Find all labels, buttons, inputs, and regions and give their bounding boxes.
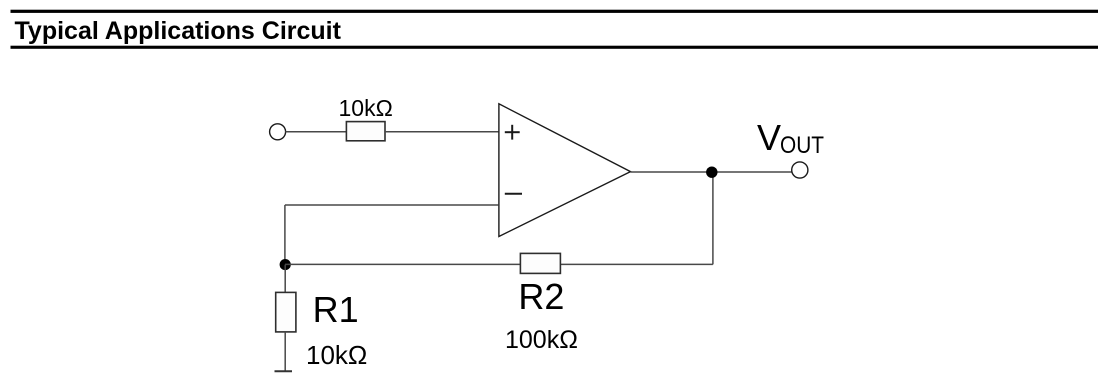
input terminal bbox=[270, 124, 286, 140]
node: output junction bbox=[706, 167, 717, 178]
svg-text:100kΩ: 100kΩ bbox=[505, 326, 578, 354]
wire: op-amp - input feedback branch (horizontal) bbox=[285, 204, 499, 206]
output terminal bbox=[792, 162, 808, 178]
op-amp - input marker bbox=[505, 193, 522, 195]
node: feedback junction bbox=[280, 259, 291, 270]
svg-text:R2: R2 bbox=[518, 276, 564, 317]
resistor 10k (input) bbox=[346, 122, 385, 141]
svg-text:10kΩ: 10kΩ bbox=[339, 95, 393, 121]
svg-text:10kΩ: 10kΩ bbox=[306, 340, 367, 370]
wire: input resistor to op-amp + input bbox=[385, 131, 498, 133]
op-amp + input marker bbox=[505, 125, 520, 140]
bottom rule bbox=[11, 46, 1099, 49]
svg-text:OUT: OUT bbox=[780, 132, 824, 159]
wire: junction to R1 bbox=[284, 265, 286, 293]
svg-text:V: V bbox=[757, 117, 781, 158]
wire: R1 to ground bbox=[284, 332, 286, 371]
resistor R2 body bbox=[520, 253, 560, 273]
svg-text:Typical Applications Circuit: Typical Applications Circuit bbox=[15, 17, 342, 45]
wire: op-amp output bbox=[631, 171, 792, 173]
ground bbox=[275, 370, 293, 372]
svg-text:R1: R1 bbox=[313, 289, 359, 330]
resistor R1 body bbox=[276, 292, 296, 332]
wire: input terminal to input resistor bbox=[285, 131, 346, 133]
top rule bbox=[11, 10, 1099, 13]
wire: bottom feedback horizontal bbox=[285, 263, 713, 265]
op-amp U1 triangle bbox=[499, 104, 631, 237]
wire: left feedback vertical bbox=[284, 205, 286, 264]
wire: right feedback vertical bbox=[712, 172, 714, 264]
